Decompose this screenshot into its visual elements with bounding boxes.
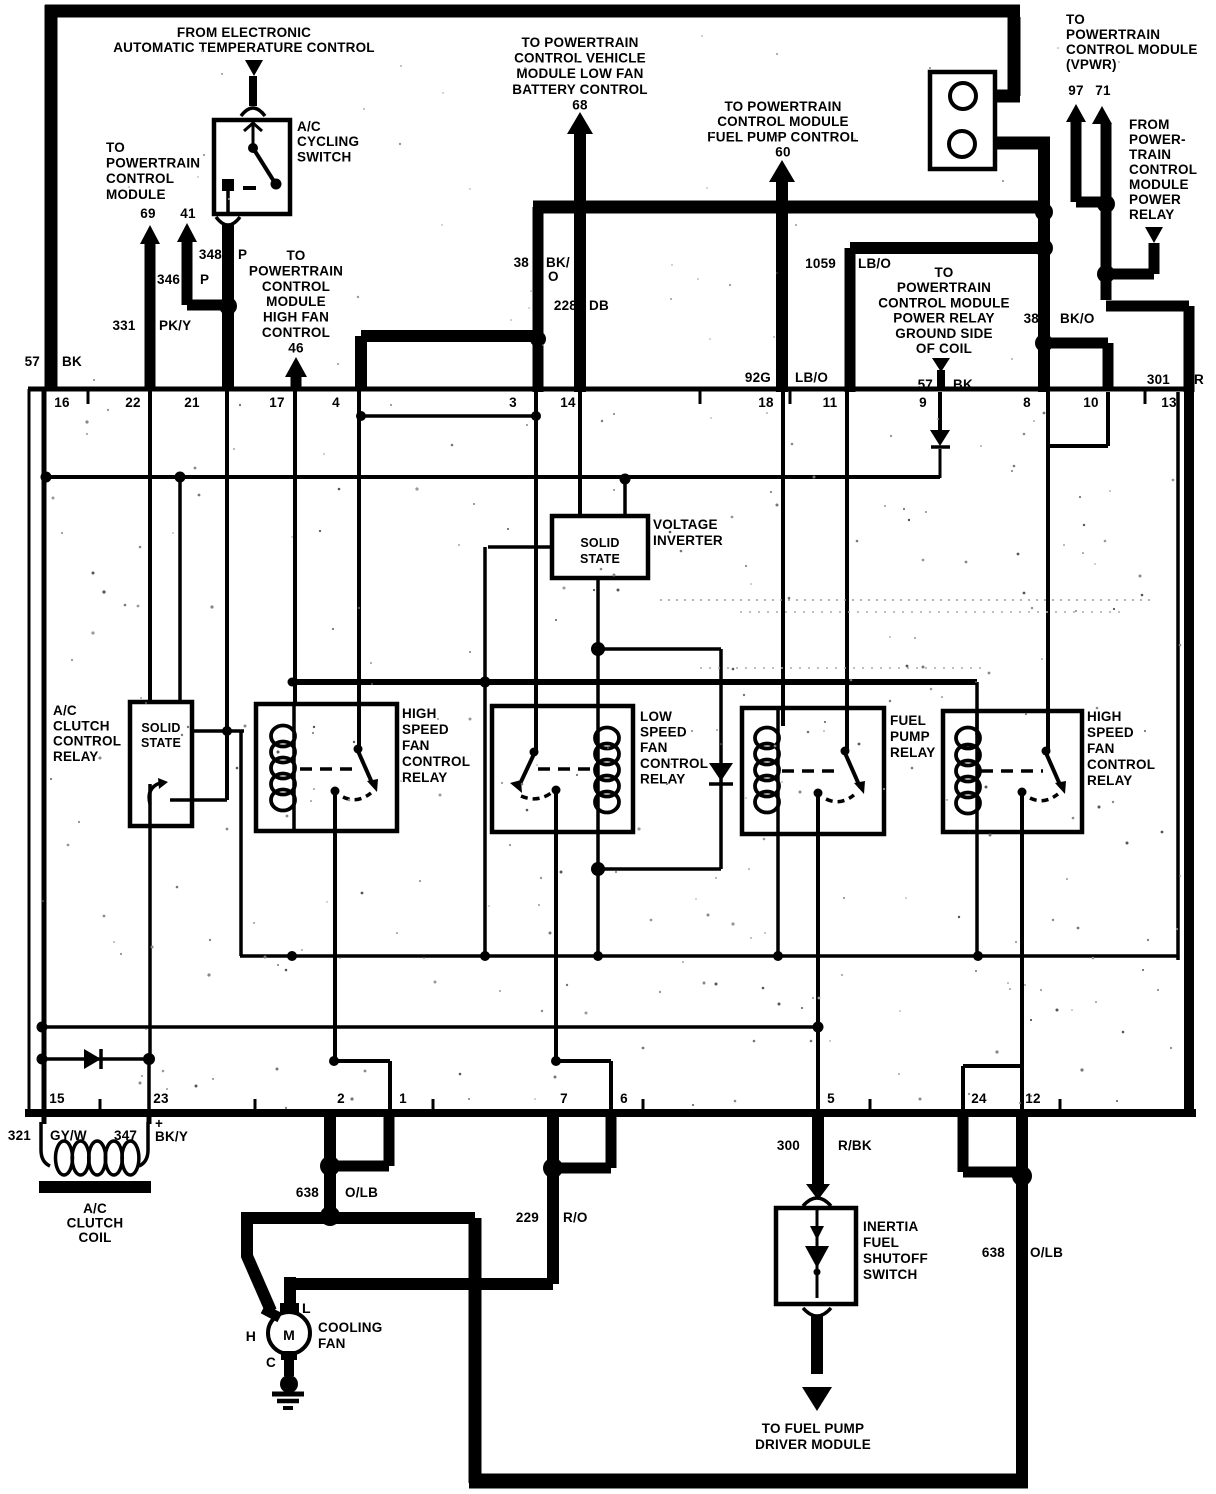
svg-text:LOW: LOW (640, 709, 672, 724)
svg-text:69: 69 (140, 206, 155, 221)
svg-text:TO FUEL PUMP: TO FUEL PUMP (762, 1421, 864, 1436)
svg-text:FUEL PUMP CONTROL: FUEL PUMP CONTROL (707, 129, 858, 144)
svg-text:A/C: A/C (53, 703, 77, 718)
svg-text:CONTROL MODULE: CONTROL MODULE (717, 114, 849, 129)
svg-text:1059: 1059 (805, 256, 836, 271)
svg-text:SPEED: SPEED (640, 725, 687, 740)
svg-text:BK: BK (62, 354, 82, 369)
svg-text:CONTROL MODULE: CONTROL MODULE (878, 295, 1010, 310)
svg-text:23: 23 (153, 1091, 169, 1106)
svg-text:301: 301 (1147, 372, 1170, 387)
svg-text:DB: DB (589, 298, 609, 313)
svg-text:BK/: BK/ (546, 255, 570, 270)
svg-text:16: 16 (54, 395, 70, 410)
svg-text:CONTROL: CONTROL (106, 171, 174, 186)
svg-text:41: 41 (180, 206, 196, 221)
svg-text:DRIVER MODULE: DRIVER MODULE (755, 1437, 871, 1452)
svg-text:AUTOMATIC TEMPERATURE CONTROL: AUTOMATIC TEMPERATURE CONTROL (113, 40, 375, 55)
svg-text:300: 300 (777, 1138, 800, 1153)
svg-text:9: 9 (919, 395, 927, 410)
svg-text:SOLID: SOLID (141, 721, 180, 735)
svg-text:R/O: R/O (563, 1210, 588, 1225)
svg-text:7: 7 (560, 1091, 568, 1106)
svg-text:638: 638 (982, 1245, 1005, 1260)
svg-text:97: 97 (1068, 83, 1083, 98)
svg-text:HIGH: HIGH (402, 706, 437, 721)
svg-text:18: 18 (758, 395, 774, 410)
svg-text:P: P (238, 247, 247, 262)
svg-text:TO POWERTRAIN: TO POWERTRAIN (724, 99, 841, 114)
svg-text:R/BK: R/BK (838, 1138, 872, 1153)
svg-text:331: 331 (112, 318, 135, 333)
svg-text:21: 21 (184, 395, 200, 410)
svg-text:H: H (246, 1328, 256, 1344)
svg-text:346: 346 (157, 272, 180, 287)
svg-text:348: 348 (199, 247, 222, 262)
svg-text:RELAY: RELAY (1129, 207, 1175, 222)
svg-text:TO: TO (287, 248, 306, 263)
svg-text:12: 12 (1025, 1091, 1040, 1106)
svg-text:8: 8 (1023, 395, 1031, 410)
svg-text:GY/W: GY/W (50, 1128, 87, 1143)
svg-text:FAN: FAN (402, 738, 430, 753)
svg-text:60: 60 (775, 145, 790, 160)
svg-text:BK: BK (953, 377, 973, 392)
svg-text:FUEL: FUEL (863, 1235, 899, 1250)
svg-text:RELAY: RELAY (53, 749, 99, 764)
svg-text:STATE: STATE (141, 736, 181, 750)
svg-text:GROUND SIDE: GROUND SIDE (895, 326, 992, 341)
svg-text:BATTERY CONTROL: BATTERY CONTROL (512, 82, 648, 97)
svg-text:TO POWERTRAIN: TO POWERTRAIN (521, 35, 638, 50)
svg-text:CONTROL: CONTROL (53, 734, 121, 749)
svg-text:MODULE: MODULE (106, 187, 166, 202)
svg-text:CONTROL: CONTROL (1129, 162, 1197, 177)
svg-text:SPEED: SPEED (402, 722, 449, 737)
svg-text:57: 57 (25, 354, 40, 369)
svg-text:CONTROL: CONTROL (640, 756, 708, 771)
svg-text:FAN: FAN (640, 740, 668, 755)
svg-text:INERTIA: INERTIA (863, 1219, 918, 1234)
svg-text:CONTROL: CONTROL (1087, 757, 1155, 772)
svg-text:POWER: POWER (1129, 192, 1181, 207)
svg-text:24: 24 (971, 1091, 987, 1106)
svg-text:POWERTRAIN: POWERTRAIN (249, 263, 343, 278)
svg-text:MODULE: MODULE (266, 294, 326, 309)
svg-text:O/LB: O/LB (345, 1185, 378, 1200)
svg-text:RELAY: RELAY (640, 771, 686, 786)
svg-text:POWER-: POWER- (1129, 132, 1186, 147)
svg-text:CONTROL VEHICLE: CONTROL VEHICLE (514, 51, 646, 66)
svg-text:68: 68 (572, 97, 588, 112)
svg-text:5: 5 (827, 1091, 835, 1106)
svg-text:92G: 92G (745, 370, 771, 385)
svg-text:SPEED: SPEED (1087, 725, 1134, 740)
svg-text:RELAY: RELAY (402, 770, 448, 785)
svg-text:6: 6 (620, 1091, 628, 1106)
svg-text:PK/Y: PK/Y (159, 318, 191, 333)
svg-text:CONTROL: CONTROL (262, 279, 330, 294)
svg-text:FROM ELECTRONIC: FROM ELECTRONIC (177, 25, 311, 40)
svg-text:RELAY: RELAY (1087, 773, 1133, 788)
svg-text:MODULE: MODULE (1129, 177, 1189, 192)
svg-text:L: L (302, 1300, 311, 1316)
svg-text:(VPWR): (VPWR) (1066, 57, 1117, 72)
svg-text:46: 46 (288, 340, 304, 355)
svg-text:O/LB: O/LB (1030, 1245, 1063, 1260)
svg-text:FAN: FAN (318, 1336, 346, 1351)
svg-text:1: 1 (399, 1091, 407, 1106)
svg-text:RELAY: RELAY (890, 745, 936, 760)
svg-text:PUMP: PUMP (890, 729, 930, 744)
svg-text:FROM: FROM (1129, 117, 1170, 132)
svg-text:COOLING: COOLING (318, 1320, 382, 1335)
svg-text:CONTROL: CONTROL (402, 754, 470, 769)
svg-text:POWERTRAIN: POWERTRAIN (897, 280, 991, 295)
svg-text:POWERTRAIN: POWERTRAIN (106, 156, 200, 171)
svg-text:R: R (1194, 372, 1204, 387)
svg-text:TO: TO (106, 140, 125, 155)
svg-text:CONTROL: CONTROL (262, 325, 330, 340)
svg-text:71: 71 (1095, 83, 1111, 98)
svg-text:M: M (283, 1327, 295, 1343)
svg-text:LB/O: LB/O (858, 256, 891, 271)
svg-text:VOLTAGE: VOLTAGE (653, 517, 718, 532)
svg-text:POWER RELAY: POWER RELAY (893, 311, 994, 326)
svg-text:POWERTRAIN: POWERTRAIN (1066, 27, 1160, 42)
svg-text:CYCLING: CYCLING (297, 134, 359, 149)
svg-text:17: 17 (269, 395, 284, 410)
svg-text:638: 638 (296, 1185, 319, 1200)
svg-text:INVERTER: INVERTER (653, 533, 723, 548)
svg-text:OF COIL: OF COIL (916, 341, 972, 356)
svg-text:MODULE LOW FAN: MODULE LOW FAN (516, 66, 643, 81)
svg-text:CLUTCH: CLUTCH (53, 718, 110, 733)
svg-text:HIGH: HIGH (1087, 709, 1122, 724)
svg-text:3: 3 (509, 395, 517, 410)
svg-text:10: 10 (1083, 395, 1098, 410)
svg-text:TO: TO (1066, 12, 1085, 27)
svg-text:A/C: A/C (83, 1201, 107, 1216)
svg-text:BK/Y: BK/Y (155, 1129, 188, 1144)
svg-text:57: 57 (918, 377, 933, 392)
svg-text:347: 347 (114, 1128, 137, 1143)
svg-text:TRAIN: TRAIN (1129, 147, 1171, 162)
svg-text:13: 13 (1161, 395, 1177, 410)
svg-text:HIGH FAN: HIGH FAN (263, 310, 329, 325)
svg-text:O: O (548, 269, 559, 284)
svg-text:38: 38 (1024, 311, 1040, 326)
svg-text:SOLID: SOLID (580, 536, 619, 550)
svg-text:228: 228 (554, 298, 577, 313)
svg-text:C: C (266, 1355, 276, 1370)
svg-text:SWITCH: SWITCH (863, 1267, 917, 1282)
svg-text:38: 38 (514, 255, 530, 270)
svg-text:CONTROL MODULE: CONTROL MODULE (1066, 42, 1198, 57)
svg-text:SHUTOFF: SHUTOFF (863, 1251, 928, 1266)
svg-text:CLUTCH: CLUTCH (67, 1216, 124, 1231)
svg-text:14: 14 (560, 395, 576, 410)
svg-text:LB/O: LB/O (795, 370, 828, 385)
svg-text:P: P (200, 272, 209, 287)
svg-text:A/C: A/C (297, 119, 321, 134)
svg-text:FUEL: FUEL (890, 713, 926, 728)
svg-text:TO: TO (935, 265, 954, 280)
svg-text:11: 11 (823, 395, 838, 410)
svg-text:15: 15 (49, 1091, 65, 1106)
svg-text:4: 4 (332, 395, 340, 410)
svg-text:STATE: STATE (580, 552, 620, 566)
svg-text:SWITCH: SWITCH (297, 149, 351, 164)
svg-text:FAN: FAN (1087, 741, 1115, 756)
svg-text:BK/O: BK/O (1060, 311, 1095, 326)
svg-text:229: 229 (516, 1210, 539, 1225)
svg-text:2: 2 (337, 1091, 345, 1106)
svg-text:321: 321 (8, 1128, 31, 1143)
svg-text:COIL: COIL (78, 1230, 111, 1245)
svg-text:22: 22 (125, 395, 140, 410)
